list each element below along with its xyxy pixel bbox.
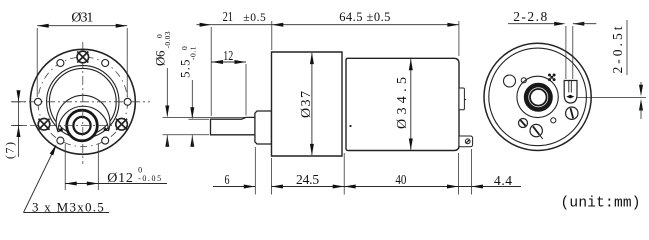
svg-text:4.4: 4.4 bbox=[494, 173, 512, 188]
svg-text:21: 21 bbox=[223, 9, 233, 24]
svg-text:Ø6: Ø6 bbox=[153, 50, 168, 66]
svg-text:Ø31: Ø31 bbox=[71, 11, 93, 26]
svg-text:(7): (7) bbox=[5, 142, 17, 159]
svg-text:5.5: 5.5 bbox=[178, 60, 193, 79]
svg-text:±0.5: ±0.5 bbox=[243, 12, 266, 24]
svg-text:-0.1: -0.1 bbox=[189, 46, 198, 60]
svg-text:40: 40 bbox=[395, 172, 406, 187]
svg-text:2-2.8: 2-2.8 bbox=[513, 9, 547, 24]
svg-text:24.5: 24.5 bbox=[296, 172, 319, 187]
svg-text:6: 6 bbox=[225, 172, 230, 187]
svg-text:-0.03: -0.03 bbox=[163, 31, 172, 48]
svg-text:-0.05: -0.05 bbox=[138, 174, 161, 183]
svg-text:Ø37: Ø37 bbox=[299, 91, 314, 118]
svg-text:Ø12: Ø12 bbox=[107, 171, 133, 186]
svg-text:12: 12 bbox=[223, 48, 233, 63]
svg-text:64.5 ±0.5: 64.5 ±0.5 bbox=[339, 10, 390, 24]
svg-text:Ø34.5: Ø34.5 bbox=[395, 77, 410, 129]
svg-text:(unit:mm): (unit:mm) bbox=[561, 196, 641, 212]
